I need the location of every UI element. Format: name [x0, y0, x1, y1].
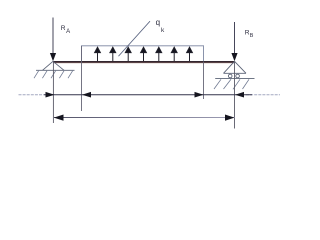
- svg-text:R: R: [61, 25, 66, 32]
- svg-text:B: B: [250, 33, 254, 39]
- svg-text:k: k: [161, 27, 165, 34]
- svg-text:q: q: [156, 18, 160, 27]
- svg-text:A: A: [66, 29, 70, 35]
